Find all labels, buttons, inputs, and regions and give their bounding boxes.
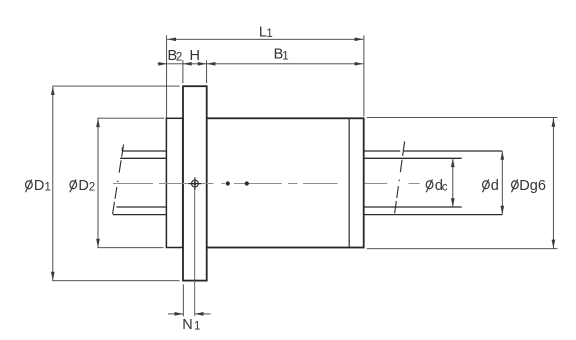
label dc diameter xyxy=(426,178,448,194)
D1 bottom arrow xyxy=(51,272,55,281)
B1 left arrow xyxy=(207,62,216,66)
svg-text:1: 1 xyxy=(45,182,51,194)
centerline segment 5 xyxy=(288,183,298,185)
label D1 diameter xyxy=(26,178,51,194)
L1 right arrow xyxy=(355,37,364,41)
d dimension line xyxy=(501,151,503,215)
thread break line left xyxy=(112,145,124,220)
H right arrow xyxy=(198,62,207,66)
flange right extension line xyxy=(206,60,208,83)
oil hole circle xyxy=(192,180,199,187)
right shaft outer diameter top line (before break) xyxy=(364,150,400,152)
B1 right arrow xyxy=(355,62,364,66)
N1 right arrow xyxy=(195,312,204,316)
oil hole centerline through flange xyxy=(194,190,196,316)
svg-text:1: 1 xyxy=(282,50,288,62)
svg-text:Dg6: Dg6 xyxy=(519,178,546,194)
Dg6 bottom extension xyxy=(367,248,558,250)
dc bottom arrow xyxy=(451,198,455,207)
L1 left arrow xyxy=(167,37,176,41)
centerline dot 1 xyxy=(226,181,230,185)
centerline segment 7 xyxy=(365,183,388,185)
D1 dimension line xyxy=(52,86,54,280)
dc dimension line xyxy=(452,158,454,207)
oil hole crosshair horizontal xyxy=(189,183,202,185)
label B2 xyxy=(168,48,183,64)
svg-text:d: d xyxy=(491,178,499,194)
svg-text:c: c xyxy=(442,182,448,194)
centerline xyxy=(113,183,420,185)
centerline segment 3 xyxy=(221,183,225,185)
nut body xyxy=(207,118,364,247)
N1 dimension line left xyxy=(168,313,183,315)
svg-text:D: D xyxy=(78,178,88,194)
left shaft outer diameter bottom line xyxy=(113,214,167,216)
svg-text:D: D xyxy=(34,178,44,194)
centerline segment 1 xyxy=(113,183,153,185)
svg-text:2: 2 xyxy=(176,52,182,64)
D2 bottom extension xyxy=(98,247,164,249)
flange left extension line xyxy=(182,60,184,83)
N1 left extension xyxy=(182,284,184,316)
D2 bottom arrow xyxy=(96,239,100,248)
L1 left extension line xyxy=(166,35,168,118)
svg-text:2: 2 xyxy=(89,182,95,194)
dc top arrow xyxy=(451,158,455,167)
D2 top extension xyxy=(98,117,165,119)
D2 dimension line xyxy=(97,118,99,247)
Dg6 bottom arrow xyxy=(552,240,556,249)
screw shaft right xyxy=(364,151,502,215)
D1 top arrow xyxy=(51,86,55,95)
centerline segment 2 xyxy=(159,183,213,185)
oil hole center dot xyxy=(194,182,197,185)
thread break line right xyxy=(394,142,405,219)
svg-text:1: 1 xyxy=(194,321,200,333)
right shaft outer diameter top line (after break) xyxy=(404,150,503,152)
Dg6 dimension line xyxy=(552,118,554,248)
arrowheads xyxy=(51,37,555,315)
left shaft root diameter top line xyxy=(120,157,166,159)
left shaft outer diameter top line xyxy=(122,150,166,152)
centerline segment 4 xyxy=(234,183,282,185)
centerline segment 8 xyxy=(409,183,420,185)
Dg6 top extension xyxy=(367,117,558,119)
L1 dimension line xyxy=(167,38,363,40)
right shaft root diameter top line xyxy=(364,157,462,159)
label D2 diameter xyxy=(70,178,95,194)
svg-text:H: H xyxy=(190,48,200,64)
L1/B1 right extension line xyxy=(363,35,365,116)
label B1 xyxy=(274,47,289,63)
oil hole mark xyxy=(189,177,202,190)
right shaft outer diameter bottom line xyxy=(364,214,502,216)
dimension graphics xyxy=(52,35,557,316)
oil hole crosshair vertical xyxy=(194,177,196,190)
left pilot protrusion xyxy=(166,118,182,247)
left shaft end tick xyxy=(121,147,123,151)
B2/H arrow at flange left xyxy=(183,62,192,66)
D2 top arrow xyxy=(96,118,100,127)
seal groove line xyxy=(348,118,350,247)
centerline segment 6 xyxy=(303,183,338,185)
d bottom arrow xyxy=(500,206,504,215)
centerline dot 2 xyxy=(245,181,249,185)
N1 left arrow xyxy=(175,312,184,316)
D1 top extension xyxy=(52,85,179,87)
screw shaft left stub xyxy=(113,147,167,214)
label d diameter xyxy=(483,178,499,194)
label L1 xyxy=(259,24,273,40)
Dg6 top arrow xyxy=(552,118,556,127)
B2 left arrow xyxy=(158,62,167,66)
left shaft root diameter bottom line xyxy=(117,206,167,208)
d top arrow xyxy=(500,151,504,160)
svg-text:1: 1 xyxy=(266,28,272,40)
label N1 xyxy=(182,317,200,333)
right shaft root diameter bottom line xyxy=(364,206,462,208)
D1 bottom extension xyxy=(52,280,179,282)
flange xyxy=(183,86,207,280)
label Dg6 diameter xyxy=(512,178,546,194)
B2 H B1 dimension line xyxy=(158,63,364,65)
N1 dimension line right xyxy=(195,313,211,315)
svg-text:N: N xyxy=(182,317,192,333)
